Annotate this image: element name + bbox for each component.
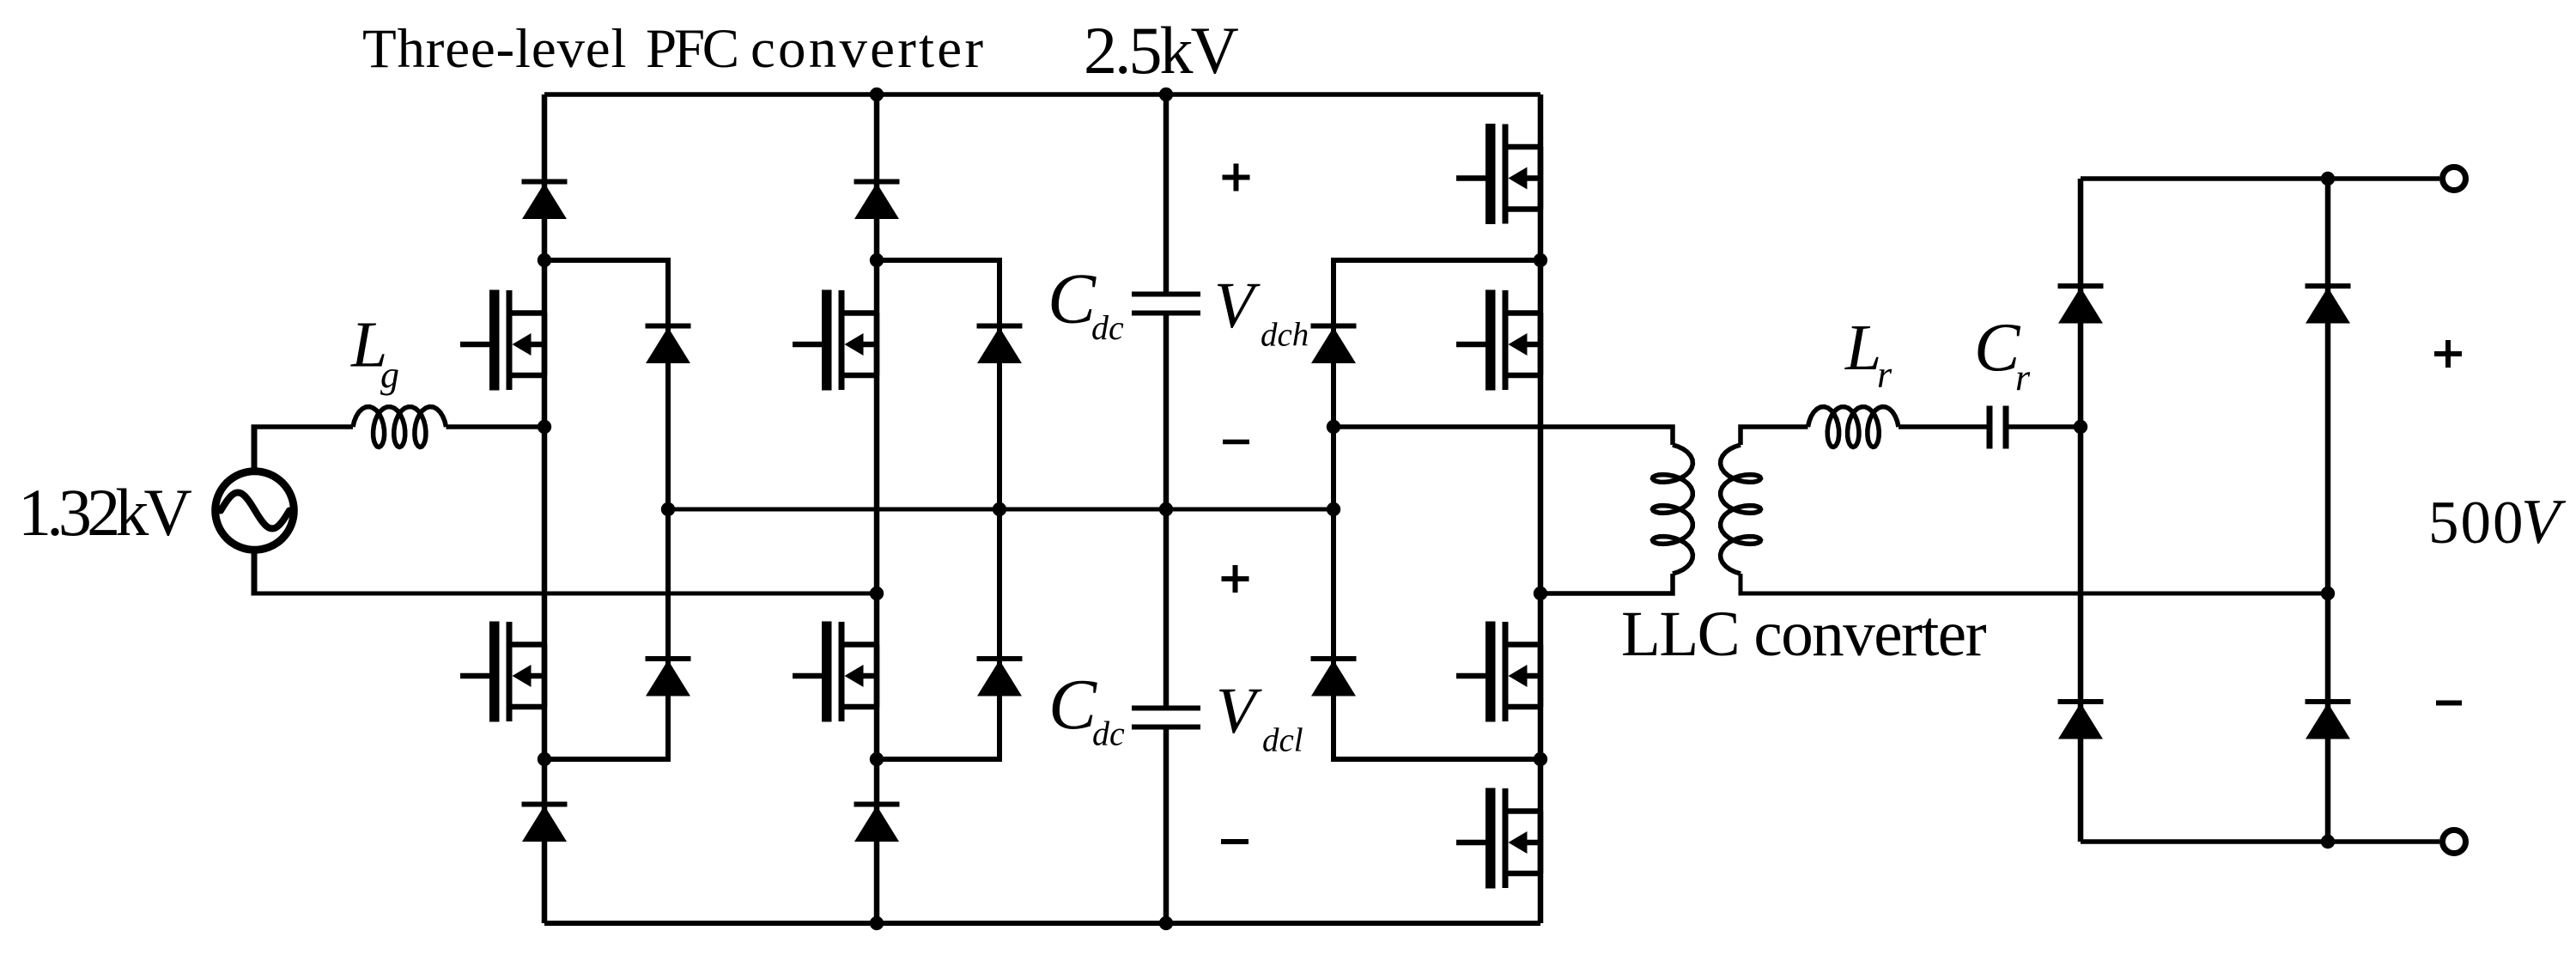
diode D5 clamp2 upper	[977, 324, 1023, 364]
wire rectifier right leg	[2325, 179, 2331, 842]
mosfet Q5 llc 1	[1456, 124, 1540, 224]
diode D10 llc clamp lower	[1311, 656, 1357, 696]
wire dc-link vertical upper	[1163, 94, 1170, 292]
diode D1 leg1 top	[522, 179, 568, 220]
node junction (1021,303)	[870, 253, 884, 267]
wire clamp chain leg1	[544, 260, 668, 759]
wire ac source top lead	[252, 427, 258, 471]
label 500V	[2428, 487, 2567, 557]
mosfet Q4 leg2 lower	[793, 622, 877, 722]
wire output bottom bus	[2081, 839, 2439, 844]
mosfet Q2 leg1 lower	[460, 622, 544, 722]
svg-text:1.32kV: 1.32kV	[18, 475, 192, 550]
svg-text:r: r	[1877, 354, 1893, 396]
svg-text:PFC: PFC	[646, 18, 737, 80]
node junction (2711,208)	[2321, 172, 2335, 186]
wire ac source bottom lead	[252, 550, 258, 593]
wire pfc leg1 vertical	[542, 94, 548, 923]
svg-text:Three-level: Three-level	[362, 18, 627, 80]
wire dc-link vertical middle	[1163, 316, 1170, 706]
node junction (1358,1075)	[1159, 916, 1173, 930]
wire clamp chain leg2	[877, 260, 999, 759]
plus sign output	[2434, 340, 2462, 368]
label Lg	[350, 309, 399, 397]
wire bottom dc bus	[544, 921, 1540, 926]
node junction (1794,303)	[1534, 253, 1547, 267]
ac source 1.32kV	[216, 471, 295, 550]
minus sign output	[2436, 701, 2462, 706]
node junction (1358,110)	[1159, 88, 1173, 101]
svg-text:V: V	[1214, 270, 1261, 342]
node junction (2711,980)	[2321, 835, 2335, 848]
output terminal top	[2443, 167, 2466, 191]
mosfet Q1 leg1 upper	[460, 290, 544, 391]
wire llc clamp chain	[1334, 260, 1540, 759]
diode D8 leg2 bottom	[854, 802, 900, 842]
node junction (1794,691)	[1534, 587, 1547, 600]
svg-text:V: V	[2521, 487, 2567, 557]
wire pfc leg2 vertical	[874, 94, 880, 923]
svg-text:500: 500	[2428, 490, 2525, 557]
mosfet Q7 llc 3	[1456, 622, 1540, 722]
svg-text:dc: dc	[1092, 715, 1125, 753]
svg-text:V: V	[1216, 675, 1262, 747]
wire Lr to Cr	[1899, 424, 1987, 429]
svg-text:LLC converter: LLC converter	[1621, 599, 1987, 670]
diode D3 clamp1 upper	[646, 324, 691, 364]
label Lr	[1844, 312, 1893, 396]
node junction (1021,884)	[870, 752, 884, 766]
svg-text:2.5kV: 2.5kV	[1084, 13, 1239, 88]
wire dc-link vertical lower	[1163, 730, 1170, 924]
diode D12 rect right top	[2306, 283, 2351, 324]
wire neutral rail	[668, 508, 1334, 512]
mosfet Q8 llc 4	[1456, 788, 1540, 889]
inductor Lg	[353, 407, 447, 447]
node junction (1553,593)	[1327, 502, 1340, 516]
svg-text:converter: converter	[750, 18, 986, 80]
wire primary bottom lead	[1540, 574, 1673, 593]
diode D9 llc clamp upper	[1311, 324, 1357, 364]
label Three-level PFC converter	[362, 18, 986, 80]
node junction (1164,593)	[993, 502, 1006, 516]
transformer T1 secondary	[1721, 445, 1761, 574]
node junction (778,593)	[661, 502, 675, 516]
diode D13 rect left bottom	[2058, 699, 2104, 739]
node junction (1021,1075)	[870, 916, 884, 930]
svg-text:C: C	[1974, 311, 2021, 386]
node junction (1553,497)	[1327, 420, 1340, 434]
plus sign upper cap	[1223, 164, 1250, 192]
label Cr	[1974, 311, 2031, 399]
mosfet Q3 leg2 upper	[793, 290, 877, 391]
svg-text:g: g	[380, 354, 399, 396]
wire secondary top lead	[1741, 427, 1808, 445]
node junction (634,497)	[538, 420, 551, 434]
svg-text:dch: dch	[1261, 317, 1309, 354]
label Vdch	[1214, 270, 1309, 354]
wire output top bus	[2081, 176, 2439, 181]
svg-text:dc: dc	[1091, 308, 1124, 347]
node junction (1358,593)	[1159, 502, 1173, 516]
node junction (634,303)	[538, 253, 551, 267]
node junction (2711,691)	[2321, 587, 2335, 600]
wire rectifier left leg	[2078, 179, 2084, 842]
svg-text:L: L	[1844, 312, 1881, 384]
diode D7 leg1 bottom	[522, 802, 568, 842]
wire secondary bottom lead	[1741, 574, 2328, 593]
minus sign lower cap	[1221, 839, 1249, 844]
diode D4 clamp1 lower	[646, 656, 691, 696]
capacitor Cr	[1987, 406, 2009, 449]
inductor Lr	[1808, 407, 1899, 447]
label Vdcl	[1216, 675, 1303, 759]
diode D6 clamp2 lower	[977, 656, 1023, 696]
svg-text:dcl: dcl	[1262, 722, 1303, 759]
label Cdc upper	[1048, 259, 1124, 348]
minus sign upper cap	[1223, 440, 1249, 445]
plus sign lower cap	[1222, 565, 1249, 593]
node junction (634,884)	[538, 752, 551, 766]
node junction (1794,884)	[1534, 752, 1547, 766]
capacitor Cdc lower	[1132, 706, 1200, 730]
svg-text:C: C	[1048, 665, 1097, 745]
node junction (1021,691)	[870, 587, 884, 600]
wire primary tap	[1334, 427, 1673, 445]
transformer T1 primary	[1653, 445, 1693, 574]
diode D11 rect left top	[2058, 283, 2104, 324]
diode D14 rect right bottom	[2306, 699, 2351, 739]
wire Lg to leg1	[447, 424, 545, 429]
mosfet Q6 llc 2	[1456, 290, 1540, 391]
node junction (1021,110)	[870, 88, 884, 101]
svg-text:r: r	[2015, 356, 2031, 398]
wire llc leg vertical	[1538, 94, 1544, 923]
svg-text:C: C	[1048, 259, 1097, 339]
output terminal bottom	[2443, 830, 2466, 854]
node junction (2423,497)	[2074, 420, 2087, 434]
wire Cr to rectifier	[2009, 424, 2081, 429]
wire top dc bus	[544, 92, 1540, 97]
capacitor Cdc upper	[1132, 292, 1200, 316]
diode D2 leg2 top	[854, 179, 900, 220]
label Cdc lower	[1048, 665, 1125, 753]
